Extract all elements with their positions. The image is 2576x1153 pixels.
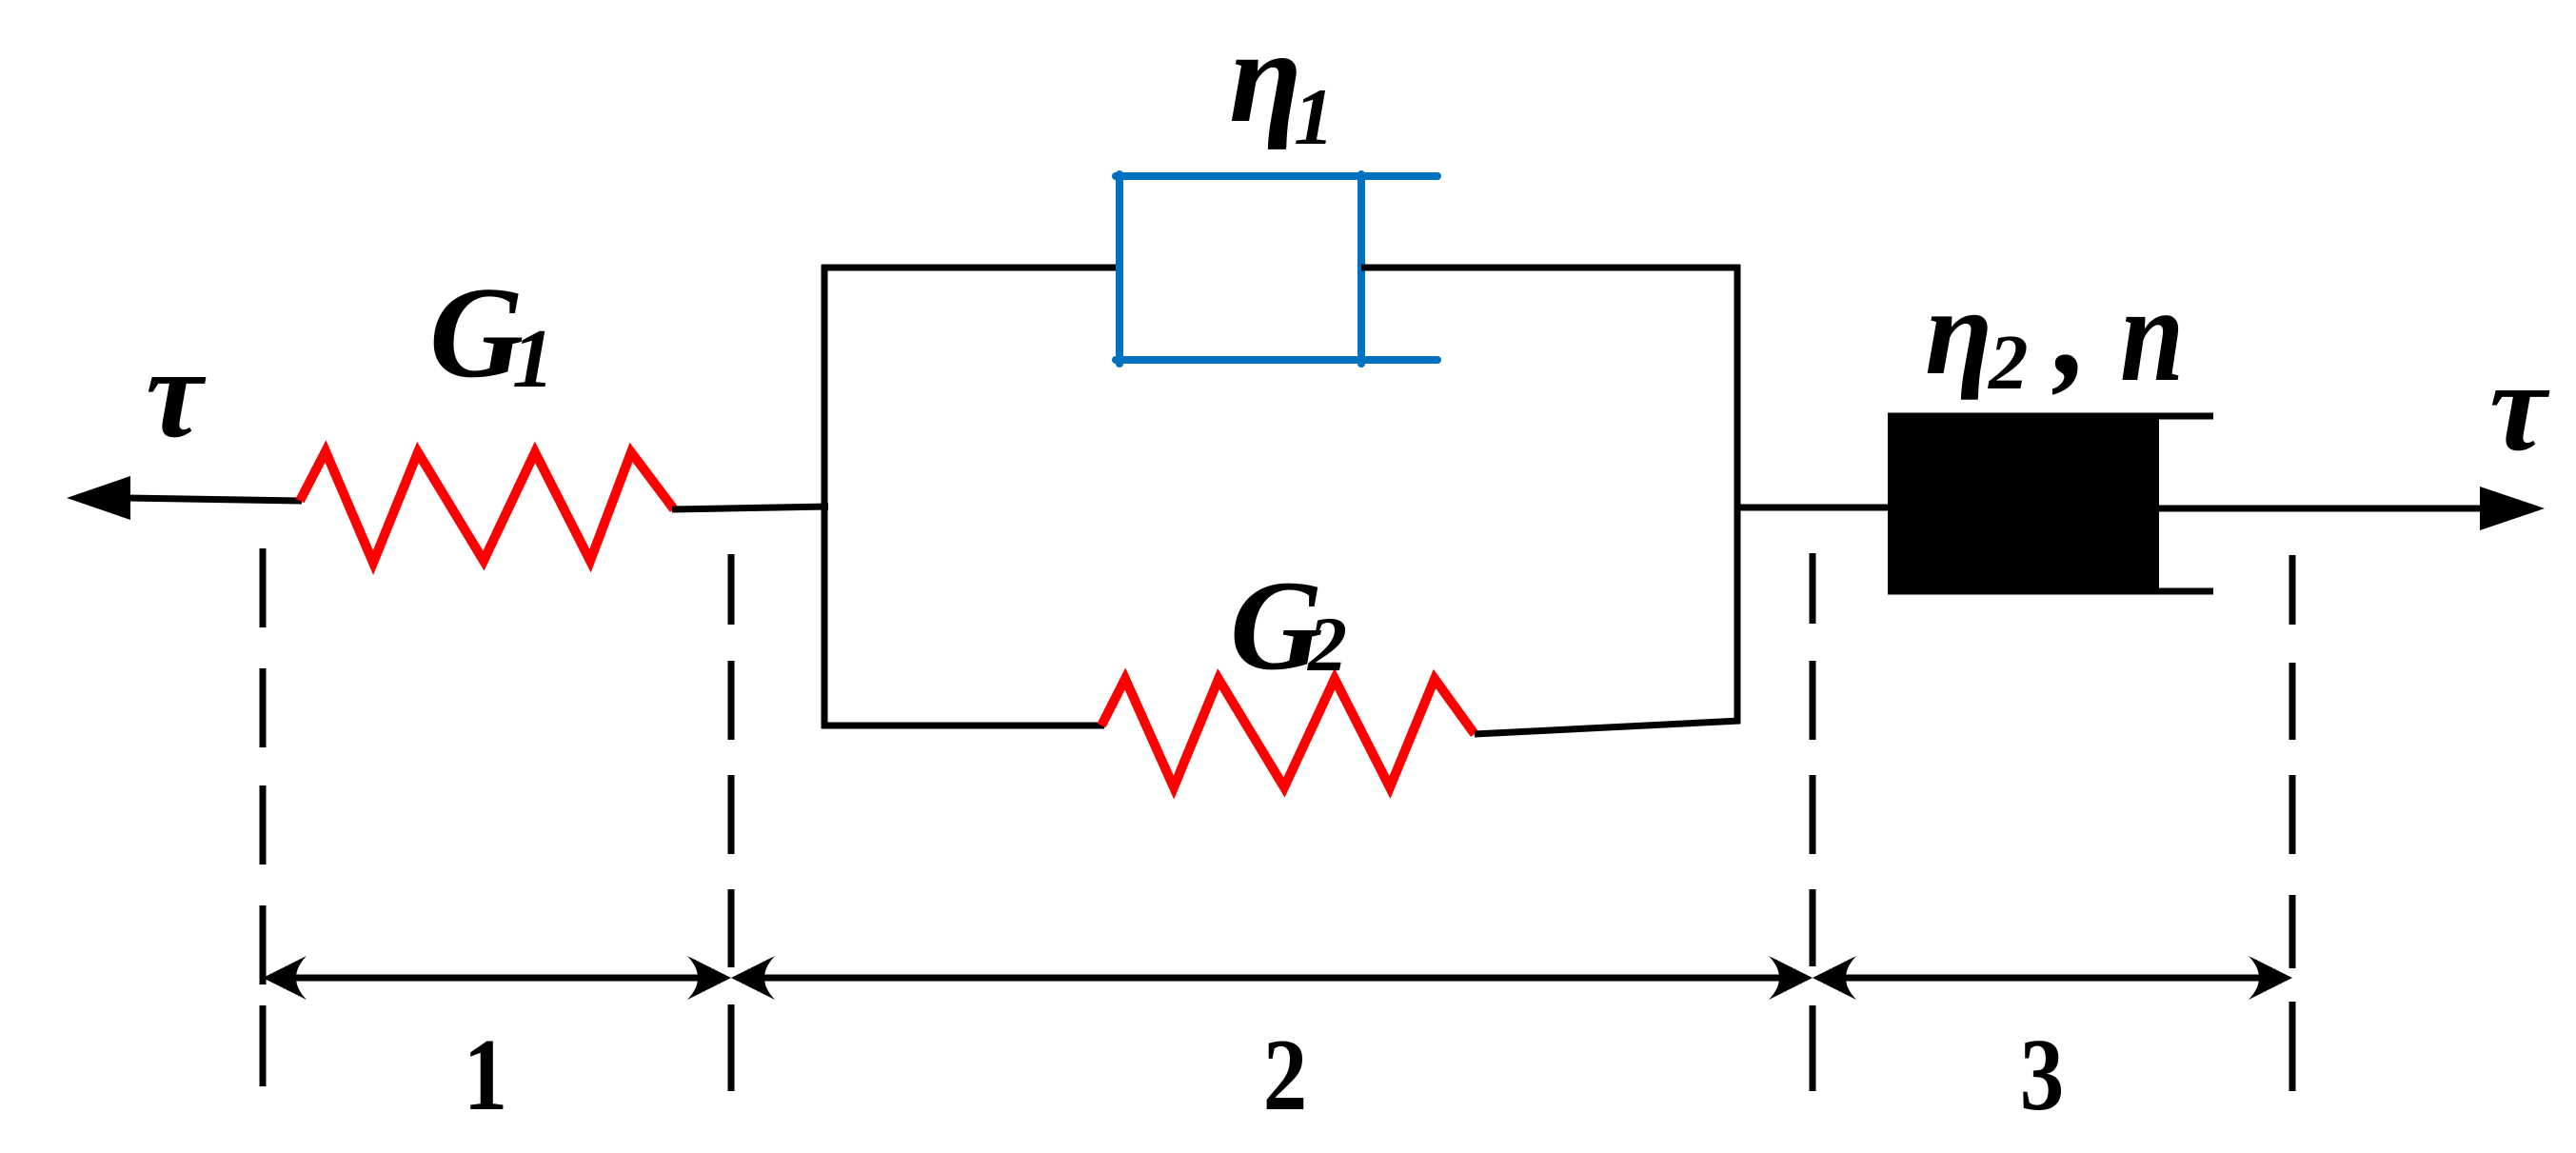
dimension arrowhead 1 left xyxy=(263,956,307,1000)
svg-text:η: η xyxy=(1925,264,1992,401)
spring G1 xyxy=(300,451,674,563)
svg-text:G: G xyxy=(429,260,524,405)
right stress arrow head xyxy=(2480,487,2545,530)
dashpot eta1 piston (blue) xyxy=(1357,174,1365,364)
wire bottom branch left xyxy=(822,723,1104,729)
svg-text:τ: τ xyxy=(146,323,207,465)
svg-text:τ: τ xyxy=(2489,336,2550,478)
wire top branch right xyxy=(1361,265,1740,271)
dashed divider line 3 xyxy=(1810,553,1816,1091)
dimension line segment 1 xyxy=(295,975,704,982)
svg-text:1: 1 xyxy=(1294,72,1335,162)
dimension line segment 3 xyxy=(1842,975,2266,982)
dashpot eta1 cylinder (blue) xyxy=(1116,174,1437,364)
dimension arrowhead 2 left xyxy=(731,956,775,1000)
svg-text:n: n xyxy=(2120,258,2184,409)
dashpot eta2 piston (filled black) xyxy=(1888,413,2159,594)
wire bottom branch right xyxy=(1475,721,1740,734)
dashed divider line 1 xyxy=(260,548,267,1086)
dimension arrowhead 3 left xyxy=(1813,956,1856,1000)
wire dashpot to right arrow xyxy=(2159,506,2485,512)
dashed divider line 4 xyxy=(2289,555,2296,1091)
wire block to dashpot eta2 xyxy=(1737,505,1891,511)
svg-text:2: 2 xyxy=(1307,601,1347,687)
svg-text:1: 1 xyxy=(464,1017,507,1131)
wire G1 to block xyxy=(672,507,828,509)
left stress arrow head xyxy=(67,476,130,520)
svg-text:,: , xyxy=(2051,256,2089,404)
dimension line segment 2 xyxy=(762,975,1785,982)
parallel block left wall xyxy=(822,265,828,728)
dimension arrowhead 3 right xyxy=(2249,956,2292,1000)
dashpot eta2 cylinder top rail xyxy=(1888,413,2213,420)
svg-text:η: η xyxy=(1229,3,1302,150)
svg-text:2: 2 xyxy=(1987,318,2029,406)
dashed divider line 2 xyxy=(728,554,735,1091)
dimension arrowhead 1 right xyxy=(687,956,731,1000)
parallel block right wall xyxy=(1734,265,1741,724)
spring G2 xyxy=(1101,679,1475,787)
dashpot eta2 cylinder bottom rail xyxy=(1888,588,2213,595)
wire left arrow shaft xyxy=(127,498,302,501)
svg-text:3: 3 xyxy=(2020,1017,2064,1131)
svg-text:1: 1 xyxy=(512,313,554,406)
dimension arrowhead 2 right xyxy=(1769,956,1813,1000)
svg-text:2: 2 xyxy=(1263,1017,1307,1131)
wire top branch left xyxy=(822,265,1123,271)
